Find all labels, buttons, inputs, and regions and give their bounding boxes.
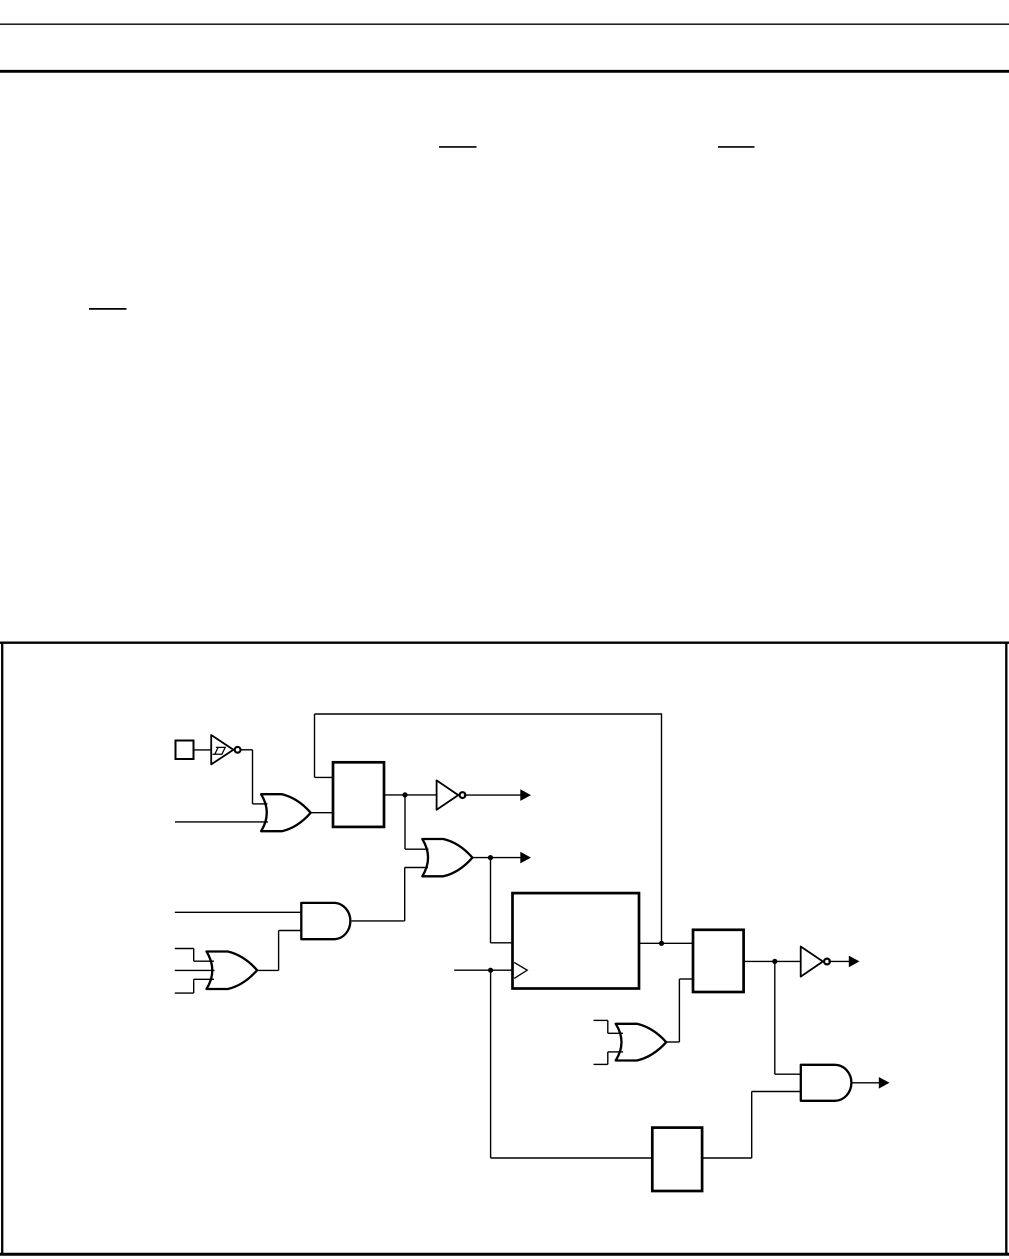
wire U3 output with arrow bbox=[828, 960, 849, 962]
wire FF2 output to R2 bbox=[639, 942, 694, 944]
node junction at FF1 output bbox=[402, 792, 407, 797]
hysteresis glyph bbox=[213, 747, 226, 754]
flip-flop FF1 bbox=[333, 762, 384, 827]
OR gate OR2 bbox=[422, 839, 472, 876]
wire U2 output with arrow bbox=[464, 794, 521, 796]
AND gate AND1 bbox=[301, 903, 350, 939]
wire R2 output bbox=[744, 960, 801, 962]
wire FF3 output to AND2 bottom input bbox=[702, 1157, 752, 1159]
wire OR3 input stub bottom bbox=[175, 992, 194, 994]
overline (signal bar) 3 bbox=[89, 308, 127, 310]
OR gate OR3 bbox=[207, 952, 258, 990]
wire FF1 output bbox=[384, 794, 436, 796]
flip-flop FF2 (large) bbox=[513, 893, 640, 988]
AND gate AND2 bbox=[801, 1065, 852, 1101]
wire OR1 output to FF1 bbox=[311, 812, 334, 814]
register R2 bbox=[693, 930, 744, 992]
OR gate OR4 bbox=[616, 1024, 667, 1061]
wire junction down to AND2 top input bbox=[774, 961, 776, 1074]
overline (signal bar) 2 bbox=[718, 146, 755, 148]
wire clock down to FF3 bbox=[490, 970, 492, 1158]
header rule thin bbox=[0, 23, 1009, 25]
wire OR4 input stub top bbox=[594, 1019, 608, 1021]
wire AND1 top input bbox=[175, 911, 301, 913]
figure frame left bbox=[1, 642, 3, 1255]
wire OR3 input stub top bbox=[175, 948, 194, 950]
wire AND2 output with arrow bbox=[851, 1082, 879, 1084]
header rule thick bbox=[0, 70, 1009, 73]
figure frame top bbox=[0, 642, 1009, 644]
input pad square bbox=[176, 741, 194, 760]
wire junction down to FF2 D input bbox=[490, 858, 492, 943]
wire pad to schmitt bbox=[194, 749, 212, 751]
wire AND1 bottom input from OR3 output bbox=[279, 930, 302, 932]
node junction at OR2 output bbox=[488, 855, 493, 860]
wire OR4 input stub bottom bbox=[594, 1063, 608, 1065]
overline (signal bar) 1 bbox=[439, 146, 477, 148]
wire clock stub into FF2 bbox=[454, 969, 512, 971]
wire AND1 output up to OR2 bbox=[352, 920, 405, 922]
schmitt inverter U1 bbox=[211, 735, 233, 764]
figure frame bottom bbox=[0, 1253, 1009, 1256]
inverter U2 bbox=[437, 780, 459, 809]
figure frame right bbox=[1005, 642, 1007, 1255]
node junction FF2 output / feedback bbox=[659, 941, 664, 946]
wire schmitt output to OR1 top input bbox=[241, 749, 252, 751]
OR gate OR1 bbox=[261, 794, 311, 831]
feedback wire into FF1 (from FF2 output) bbox=[315, 776, 335, 778]
wire OR3 input middle bbox=[175, 969, 215, 971]
node junction at R2 output bbox=[772, 959, 777, 964]
node clock junction bbox=[488, 968, 493, 973]
wire OR2 output with arrow bbox=[472, 857, 521, 859]
wire OR4 output up into R2 bbox=[679, 978, 693, 980]
wire OR1 bottom input bbox=[175, 821, 268, 823]
inverter U3 bbox=[801, 947, 823, 977]
flip-flop FF3 (bottom) bbox=[652, 1128, 702, 1191]
wire OR2 bottom input from AND1 output bbox=[405, 867, 428, 869]
wire junction down to OR2 top input bbox=[404, 795, 406, 849]
FF2 clock triangle bbox=[514, 962, 527, 978]
